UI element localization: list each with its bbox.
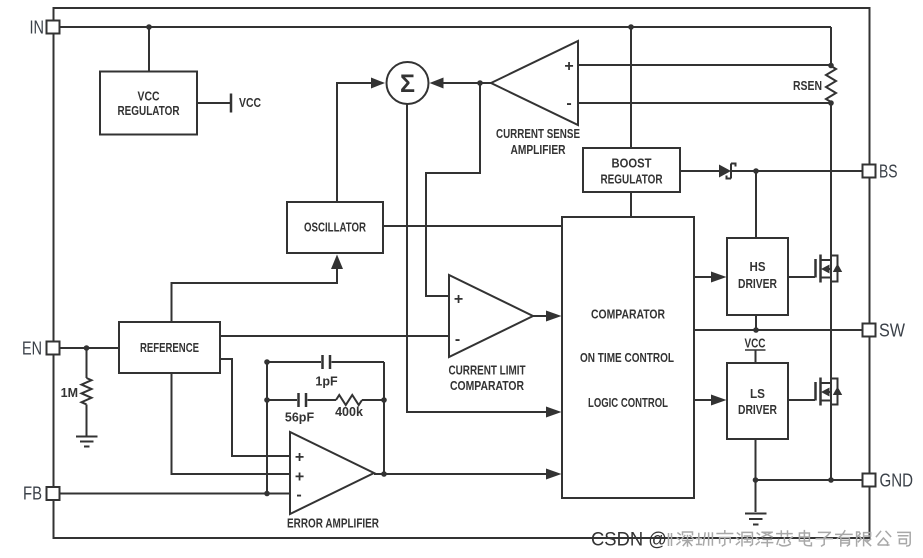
node IN-VCCreg junction bbox=[146, 24, 152, 30]
wire cap C1 to right column bbox=[332, 361, 385, 363]
block HS DRIVER bbox=[727, 238, 788, 315]
wire oscillator output to control block bbox=[383, 225, 562, 227]
resistor R1 1M bbox=[82, 378, 92, 404]
pin IN bbox=[47, 21, 60, 34]
wire 1M resistor top stem bbox=[86, 348, 88, 378]
transistor M1 HS FET diode arrow (up) bbox=[833, 264, 842, 273]
svg-text:+: + bbox=[564, 58, 573, 75]
svg-text:COMPARATOR: COMPARATOR bbox=[591, 307, 665, 322]
arrow into summing node from current sense bbox=[430, 78, 444, 89]
svg-text:AMPLIFIER: AMPLIFIER bbox=[511, 142, 566, 157]
wire BOOST reg output to BS pin bbox=[680, 170, 862, 172]
svg-text:CURRENT SENSE: CURRENT SENSE bbox=[496, 126, 580, 141]
diode D1 schottky cathode bar bbox=[727, 164, 736, 179]
svg-text:EN: EN bbox=[22, 339, 42, 359]
wire reference bottom to error amp +2 input bbox=[172, 373, 291, 474]
svg-text:CSDN @: CSDN @ bbox=[591, 529, 667, 551]
node current sense output junction bbox=[477, 80, 483, 86]
block LS DRIVER bbox=[727, 363, 788, 439]
wire HS driver gate output bbox=[788, 276, 815, 278]
wire control block to LS driver arrow wire bbox=[694, 399, 711, 401]
diode D1 anode triangle bbox=[719, 165, 731, 178]
svg-text:-: - bbox=[296, 487, 301, 504]
wire compensation left column x=267 bbox=[266, 362, 268, 494]
svg-text:-: - bbox=[455, 331, 460, 348]
wire reference out to error amp +1 input bbox=[220, 359, 290, 456]
wire error amp output to comparator input bbox=[374, 473, 546, 475]
wire HS FET source to SW rail bbox=[830, 282, 832, 330]
svg-text:SW: SW bbox=[879, 321, 905, 341]
block VCC REGULATOR bbox=[100, 72, 197, 135]
wire BS node down to HS driver top bbox=[755, 171, 757, 238]
node FB input junction bbox=[264, 491, 270, 497]
block COMPARATOR / ON TIME CONTROL / LOGIC CONTROL bbox=[562, 217, 694, 498]
pin BS bbox=[863, 165, 876, 178]
svg-text:1M: 1M bbox=[61, 386, 78, 400]
svg-text:400k: 400k bbox=[335, 405, 363, 419]
wire BOOST reg bottom to control block top bbox=[630, 192, 632, 217]
wire FB pin to error amp - input (y=493.5) bbox=[60, 493, 290, 495]
transistor M2 LS FET diode arrow (up) bbox=[833, 387, 842, 396]
wire current sense amp + input (y=65) bbox=[578, 64, 831, 66]
arrow into oscillator bottom bbox=[331, 255, 343, 270]
wire RSEN top drop (IN rail corner to RSEN) bbox=[830, 27, 832, 66]
block BOOST REGULATOR bbox=[583, 148, 680, 192]
watermark narrow mark bbox=[669, 533, 672, 546]
wire LS FET drain to SW rail bbox=[830, 330, 832, 383]
svg-text:HS: HS bbox=[750, 259, 766, 274]
arrow current limit comparator output bbox=[546, 311, 562, 322]
node HS driver SW junction bbox=[753, 327, 759, 333]
wire compensation top row to cap C1 bbox=[267, 361, 321, 363]
wire reference out to current limit - input (y=336) bbox=[220, 335, 449, 337]
svg-text:IN: IN bbox=[30, 18, 45, 38]
svg-text:+: + bbox=[454, 291, 463, 308]
wire compensation right column x=384 bbox=[383, 362, 385, 474]
svg-text:FB: FB bbox=[23, 484, 42, 504]
op-amp U2 current limit comparator bbox=[449, 275, 533, 357]
wire GND rail (y=480) bbox=[756, 479, 863, 481]
wire summing node output to logic control input bbox=[407, 104, 546, 412]
svg-text:LS: LS bbox=[750, 386, 765, 401]
svg-text:GND: GND bbox=[880, 471, 914, 491]
wire EN pin to reference bbox=[60, 347, 119, 349]
svg-text:Σ: Σ bbox=[400, 70, 415, 98]
node compensation top-left junction bbox=[264, 359, 270, 365]
wire VCC label to LS driver top bbox=[755, 350, 757, 363]
block OSCILLATOR bbox=[287, 202, 383, 253]
svg-text:1pF: 1pF bbox=[315, 375, 338, 389]
transistor M1 HS FET gate bar bbox=[814, 259, 817, 278]
wire current limit comparator output bbox=[533, 315, 546, 317]
op-amp U1 current sense amplifier bbox=[491, 41, 578, 125]
svg-text:REGULATOR: REGULATOR bbox=[601, 172, 663, 187]
transistor M1 HS FET body diode loop bbox=[831, 256, 838, 282]
summing node bbox=[387, 62, 429, 104]
watermark company name pseudo-glyphs bbox=[677, 531, 910, 547]
svg-text:DRIVER: DRIVER bbox=[738, 276, 777, 291]
node RSEN top junction bbox=[828, 63, 834, 69]
wire oscillator top to summing node bbox=[337, 83, 372, 202]
wire current sense amp output to summing node bbox=[443, 82, 491, 84]
arrow into summing node from oscillator bbox=[371, 78, 385, 89]
svg-text:BS: BS bbox=[879, 162, 898, 182]
svg-text:LOGIC CONTROL: LOGIC CONTROL bbox=[588, 395, 668, 410]
ground symbol (power ground) bbox=[745, 514, 767, 525]
wire current sense output down-jog to current limit + input bbox=[426, 83, 480, 296]
node EN divider junction bbox=[84, 345, 90, 351]
transistor M2 LS FET stubs bbox=[821, 378, 832, 405]
svg-text:DRIVER: DRIVER bbox=[738, 402, 777, 417]
wire reference top to oscillator bottom arrow wire bbox=[172, 268, 338, 322]
svg-text:COMPARATOR: COMPARATOR bbox=[450, 378, 524, 393]
arrow LS driver input bbox=[711, 395, 727, 406]
wire LS driver bottom to GND rail and ground bbox=[755, 439, 757, 512]
transistor M2 LS FET body diode loop bbox=[831, 379, 838, 405]
arrow error amp output bbox=[546, 469, 562, 480]
block REFERENCE bbox=[119, 322, 220, 373]
ground symbol (EN divider) bbox=[76, 437, 98, 447]
svg-text:REFERENCE: REFERENCE bbox=[140, 340, 199, 355]
VCC label underline bbox=[745, 349, 766, 351]
transistor M1 HS FET channel bar bbox=[819, 255, 822, 283]
pin SW bbox=[863, 324, 876, 337]
transistor M1 HS FET stubs bbox=[821, 255, 832, 282]
svg-text:VCC: VCC bbox=[239, 96, 261, 110]
wire 1M resistor bottom stem bbox=[86, 405, 88, 437]
svg-text:56pF: 56pF bbox=[285, 411, 315, 425]
wire VCC regulator input drop x=149 bbox=[148, 27, 150, 72]
svg-text:VCC: VCC bbox=[745, 337, 766, 351]
transistor M2 LS FET body arrow (left) bbox=[821, 388, 830, 397]
arrow logic control input bbox=[546, 407, 562, 418]
wire BOOST column x=631 (IN rail to boost reg top) bbox=[630, 27, 632, 148]
transistor M1 HS FET body arrow (left) bbox=[821, 265, 830, 274]
resistor RSEN bbox=[826, 66, 836, 102]
svg-text:ERROR AMPLIFIER: ERROR AMPLIFIER bbox=[287, 516, 379, 531]
svg-text:OSCILLATOR: OSCILLATOR bbox=[304, 220, 366, 235]
capacitor C1 1pF plates bbox=[323, 355, 331, 369]
node error amp output junction bbox=[381, 471, 387, 477]
svg-text:RSEN: RSEN bbox=[793, 79, 822, 93]
node BS diode junction bbox=[753, 168, 759, 174]
wire IN rail (y=27) bbox=[60, 26, 831, 28]
transistor M2 LS FET gate bar bbox=[814, 382, 817, 401]
capacitor C2 56pF plates bbox=[299, 393, 307, 407]
wire VCC regulator output bbox=[197, 102, 230, 104]
svg-text:CURRENT LIMIT: CURRENT LIMIT bbox=[449, 363, 526, 378]
resistor R2 400k bbox=[336, 395, 362, 405]
node RSEN bottom junction bbox=[828, 100, 834, 106]
node compensation mid-left junction bbox=[264, 397, 270, 403]
op-amp U3 error amplifier bbox=[290, 432, 374, 514]
svg-text:VCC: VCC bbox=[138, 89, 160, 104]
node IN-BOOST junction bbox=[628, 24, 634, 30]
wire resistor R2 to right column bbox=[362, 399, 384, 401]
svg-text:BOOST: BOOST bbox=[612, 156, 652, 171]
wire compensation second row to cap C2 bbox=[267, 399, 297, 401]
node compensation mid-right junction bbox=[381, 397, 387, 403]
transistor M2 LS FET channel bar bbox=[819, 378, 822, 406]
wire cap C2 to resistor R2 bbox=[308, 399, 337, 401]
svg-text:+: + bbox=[295, 469, 304, 486]
svg-text:REGULATOR: REGULATOR bbox=[118, 103, 180, 118]
pin FB bbox=[47, 487, 60, 500]
arrow HS driver input bbox=[711, 272, 727, 283]
wire RSEN bottom to HS FET drain column bbox=[830, 102, 832, 255]
node LS driver GND junction bbox=[753, 477, 759, 483]
VCC output terminal bar bbox=[230, 94, 233, 113]
svg-text:+: + bbox=[295, 449, 304, 466]
wire current sense amp - input (y=103) bbox=[578, 102, 831, 104]
wire LS FET source to GND rail bbox=[830, 405, 832, 480]
pin GND bbox=[863, 474, 876, 487]
wire HS driver bottom to SW rail bbox=[755, 315, 757, 330]
wire LS driver gate output bbox=[788, 399, 815, 401]
node LS FET source GND junction bbox=[828, 477, 834, 483]
pin EN bbox=[47, 342, 60, 355]
svg-text:ON TIME CONTROL: ON TIME CONTROL bbox=[580, 350, 674, 365]
wire SW rail (y=330) bbox=[694, 329, 862, 331]
wire control block to HS driver arrow wire bbox=[694, 276, 711, 278]
svg-text:-: - bbox=[566, 95, 571, 112]
